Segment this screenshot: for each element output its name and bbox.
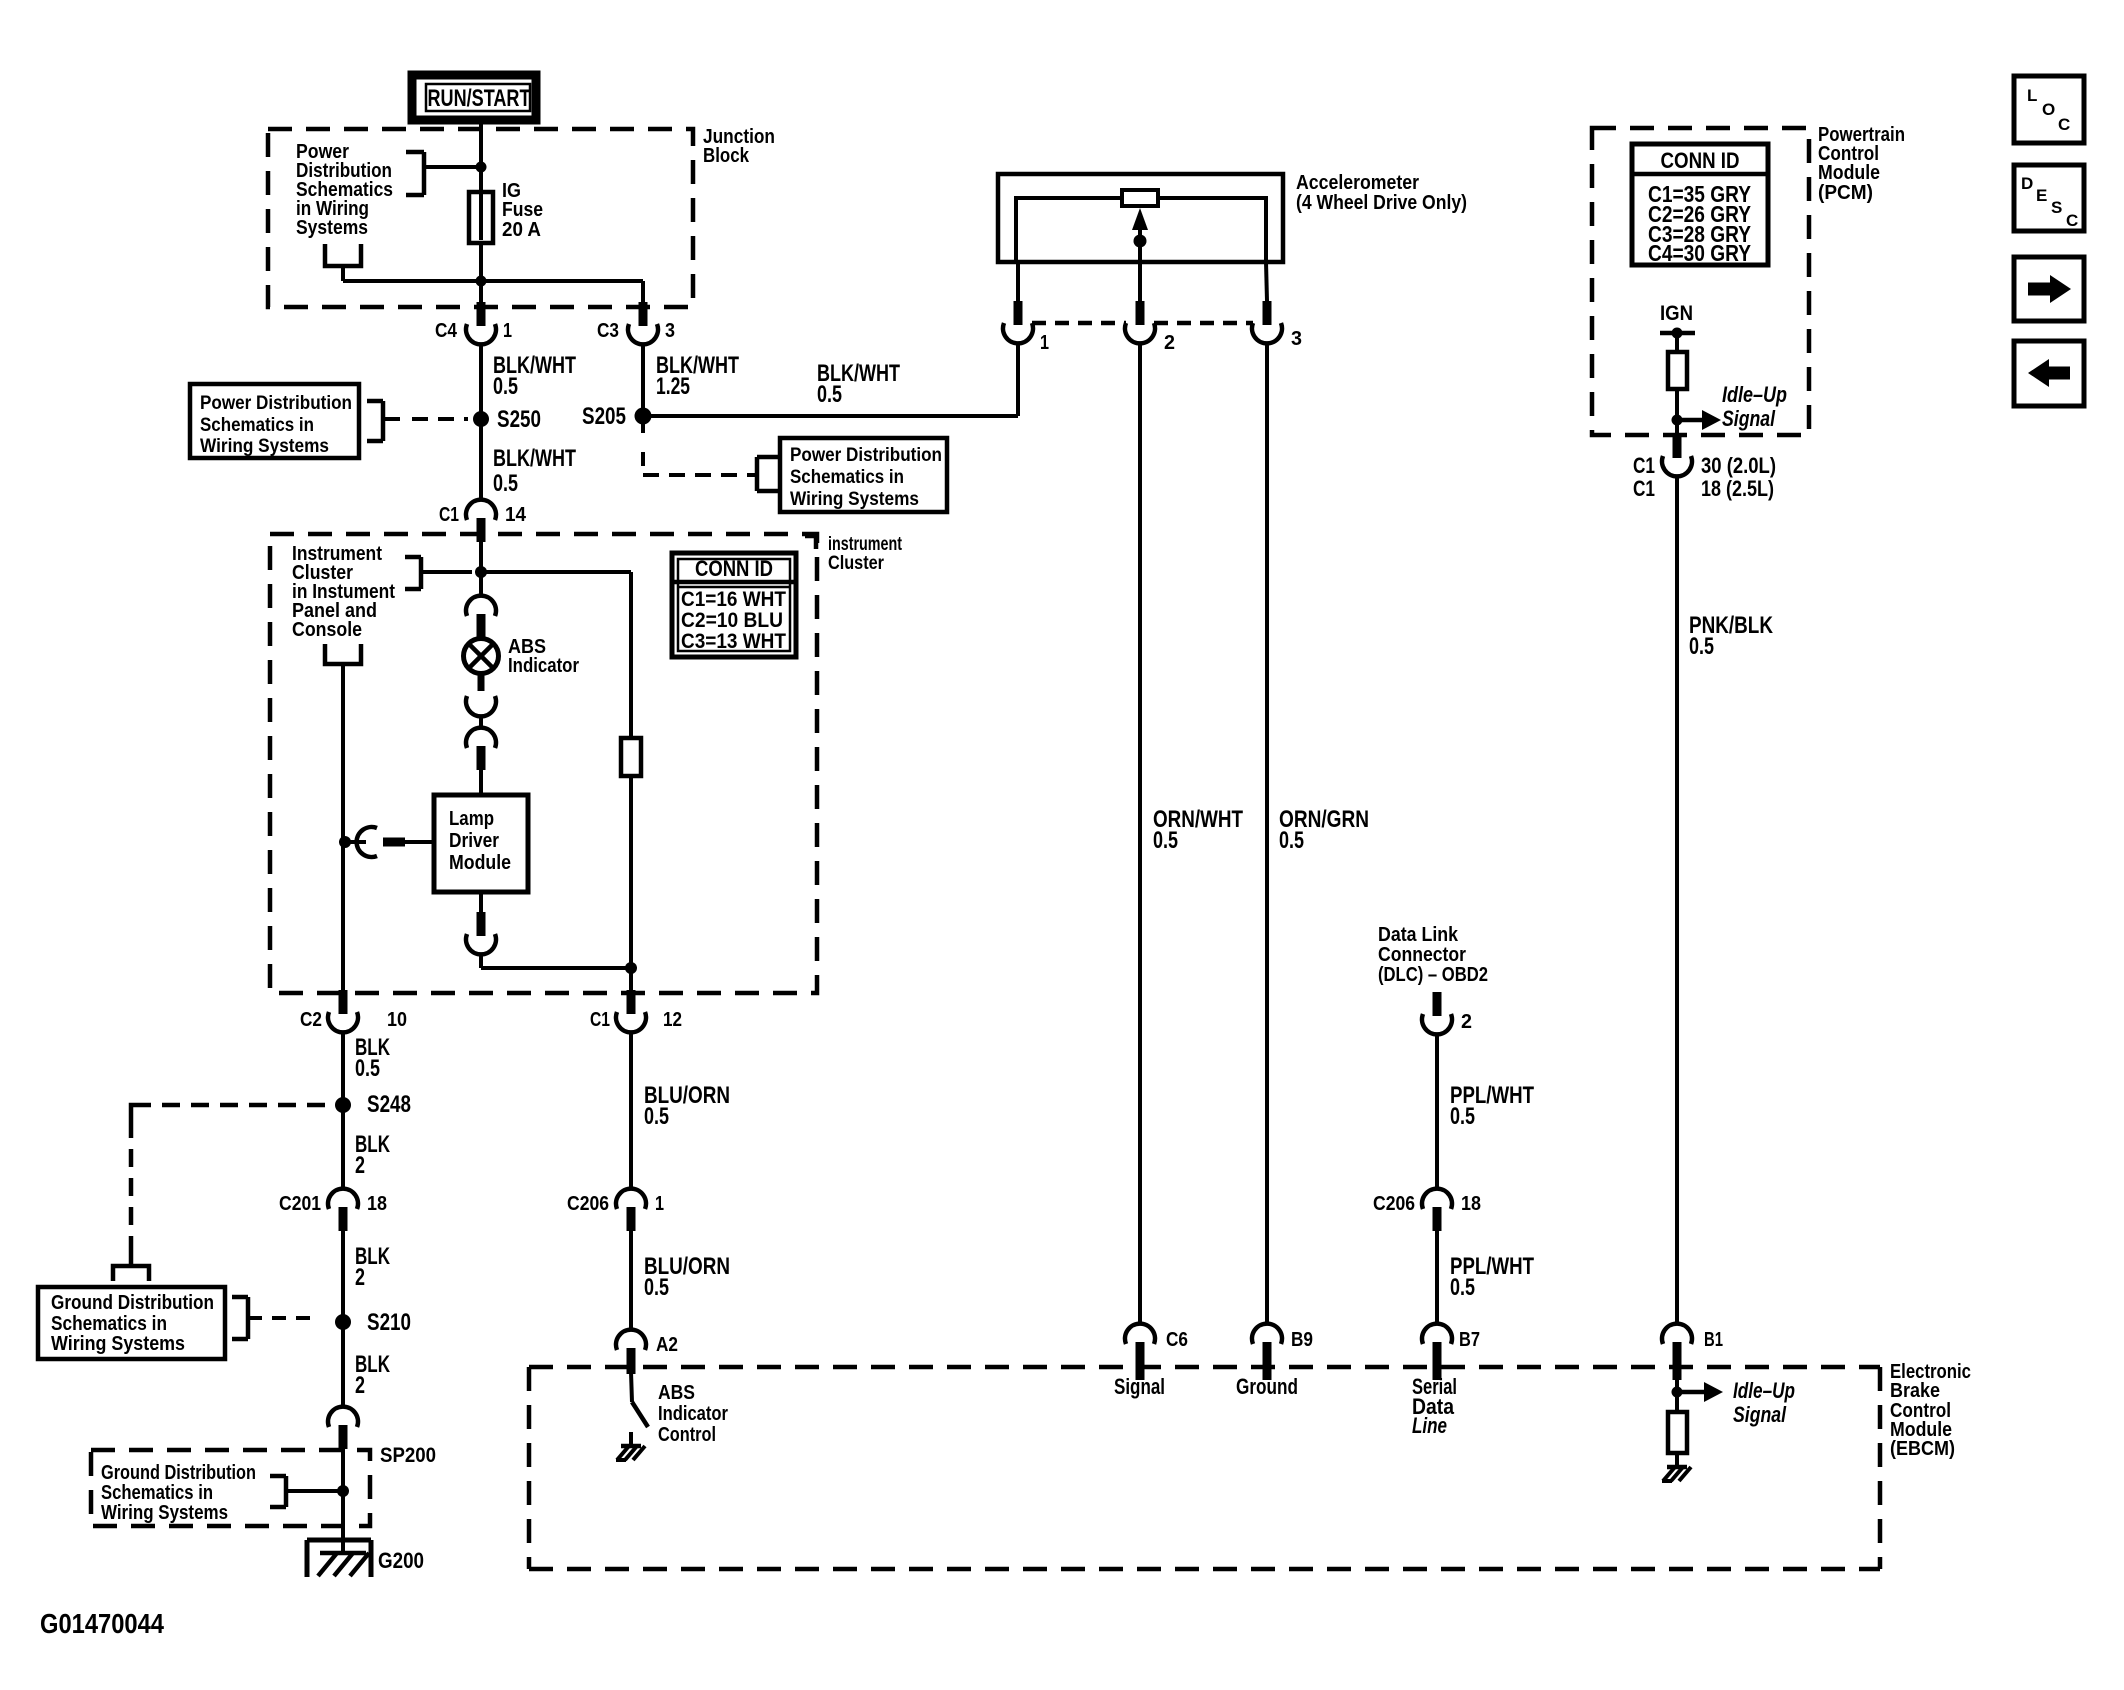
- splice S205: [582, 403, 652, 430]
- label ABS Indicator Control: [658, 1382, 728, 1446]
- wire DLC to C206: [1435, 1034, 1439, 1189]
- wire resistor to pin: [1675, 389, 1679, 437]
- label Serial Data Line: [1412, 1374, 1457, 1438]
- svg-text:CONN ID: CONN ID: [695, 556, 773, 581]
- svg-text:S: S: [2051, 198, 2062, 217]
- svg-text:IGN: IGN: [1660, 302, 1693, 325]
- svg-text:Schematics in: Schematics in: [51, 1313, 167, 1335]
- continuation symbol (junction block): [325, 244, 361, 266]
- svg-text:3: 3: [1291, 328, 1302, 350]
- svg-text:Ground: Ground: [1236, 1374, 1298, 1399]
- label ORN/GRN 0.5: [1279, 806, 1369, 854]
- svg-text:12: 12: [663, 1009, 682, 1031]
- svg-text:C1: C1: [439, 504, 459, 526]
- svg-text:Idle–Up: Idle–Up: [1733, 1378, 1795, 1403]
- bracket from note to wire: [406, 152, 481, 195]
- connector B1: [1662, 1324, 1723, 1380]
- svg-text:G200: G200: [378, 1548, 424, 1573]
- wire C201 to S210: [341, 1231, 345, 1407]
- svg-text:O: O: [2042, 100, 2055, 119]
- svg-text:Wiring Systems: Wiring Systems: [101, 1502, 228, 1524]
- label BLK 2 (above C201): [355, 1131, 390, 1179]
- svg-text:CONN ID: CONN ID: [1661, 148, 1740, 173]
- bracket + dashed link to S250: [367, 401, 468, 441]
- svg-text:(EBCM): (EBCM): [1890, 1438, 1955, 1460]
- bracket to wire (SP200): [270, 1476, 343, 1507]
- wire C2 to S248: [341, 1032, 345, 1189]
- resistor (PCM pull-up): [1668, 352, 1687, 389]
- label BLK/WHT 0.5 (C4): [493, 352, 576, 400]
- svg-text:18: 18: [367, 1193, 387, 1215]
- note box: Power Distribution Schematics in Wiring Systems (left): [190, 384, 359, 458]
- svg-text:C206: C206: [567, 1193, 609, 1215]
- junction dot idle-up: [1672, 415, 1683, 426]
- module: Lamp Driver Module: [434, 795, 528, 892]
- svg-text:Ground Distribution: Ground Distribution: [101, 1462, 256, 1484]
- connector pair above ABS indicator: [466, 596, 496, 616]
- label BLU/ORN 0.5 (lower): [644, 1253, 730, 1301]
- label BLU/ORN 0.5 (upper): [644, 1082, 730, 1130]
- svg-text:Data Link: Data Link: [1378, 924, 1459, 946]
- connector C2 pin 10: [300, 990, 407, 1032]
- svg-text:Module: Module: [449, 852, 511, 874]
- CONN ID table (instrument cluster): [672, 553, 796, 657]
- svg-text:Ground Distribution: Ground Distribution: [51, 1292, 214, 1314]
- wire lamp driver module to C1 pin 12: [479, 892, 483, 912]
- label Powertrain Control Module (PCM): [1818, 124, 1905, 204]
- electronic brake control module (dashed box): [529, 1367, 1880, 1569]
- wire C206 to A2: [629, 1231, 633, 1330]
- label Electronic Brake Control Module (EBCM): [1890, 1361, 1971, 1460]
- label Junction Block: [703, 126, 775, 167]
- svg-text:Block: Block: [703, 145, 750, 167]
- wire A2 into EBCM: [631, 1372, 632, 1402]
- svg-text:Wiring Systems: Wiring Systems: [790, 489, 919, 510]
- svg-text:Signal: Signal: [1114, 1374, 1165, 1399]
- svg-text:18 (2.5L): 18 (2.5L): [1701, 476, 1774, 501]
- svg-text:A2: A2: [656, 1334, 678, 1356]
- svg-text:Driver: Driver: [449, 830, 499, 852]
- svg-text:0.5: 0.5: [817, 381, 842, 408]
- splice S210: [335, 1309, 411, 1336]
- ground (ABS indicator control): [616, 1432, 645, 1460]
- svg-text:C4=30 GRY: C4=30 GRY: [1648, 240, 1751, 266]
- svg-text:Wiring Systems: Wiring Systems: [51, 1333, 185, 1355]
- label BLK 2 (below C201): [355, 1243, 390, 1291]
- svg-text:1.25: 1.25: [656, 373, 690, 400]
- splice S248: [335, 1091, 411, 1118]
- svg-text:B1: B1: [1704, 1329, 1723, 1351]
- svg-text:C1: C1: [1633, 476, 1655, 501]
- svg-text:S250: S250: [497, 406, 541, 433]
- connector C1 pin 30/18 (PCM): [1633, 434, 1776, 501]
- wire B1 to resistor: [1675, 1366, 1679, 1412]
- arrow idle-up signal (PCM): [1677, 410, 1721, 430]
- label PNK/BLK 0.5: [1689, 612, 1774, 660]
- svg-text:Power Distribution: Power Distribution: [790, 445, 942, 466]
- svg-text:2: 2: [355, 1372, 365, 1399]
- svg-text:0.5: 0.5: [493, 373, 518, 400]
- svg-text:RUN/START: RUN/START: [428, 85, 531, 112]
- svg-text:Wiring Systems: Wiring Systems: [200, 436, 329, 457]
- svg-text:C3=13 WHT: C3=13 WHT: [681, 629, 786, 653]
- svg-text:D: D: [2021, 174, 2033, 193]
- label BLK 0.5: [355, 1034, 390, 1082]
- svg-text:0.5: 0.5: [644, 1274, 669, 1301]
- svg-text:G01470044: G01470044: [40, 1608, 164, 1639]
- svg-text:Connector: Connector: [1378, 944, 1466, 966]
- splice S250: [473, 406, 541, 433]
- label PPL/WHT 0.5 (upper): [1450, 1082, 1534, 1130]
- dashed link S248 to continuation: [131, 1105, 325, 1266]
- svg-text:Power Distribution: Power Distribution: [200, 393, 352, 414]
- svg-text:B7: B7: [1459, 1329, 1480, 1351]
- svg-text:Fuse: Fuse: [502, 199, 543, 221]
- legend box DESC: [2014, 165, 2084, 231]
- connector C3 pin 3: [597, 302, 675, 344]
- continuation symbol (S248 link): [113, 1266, 149, 1281]
- svg-text:2: 2: [355, 1264, 365, 1291]
- junction dot below fuse: [476, 276, 487, 287]
- junction dot (EBCM idle-up): [1672, 1387, 1683, 1398]
- svg-text:0.5: 0.5: [1153, 827, 1178, 854]
- svg-text:1: 1: [655, 1193, 664, 1215]
- svg-text:0.5: 0.5: [644, 1103, 669, 1130]
- bracket (S205 note): [748, 457, 779, 491]
- svg-text:Accelerometer: Accelerometer: [1296, 172, 1419, 194]
- connector B9: [1252, 1324, 1313, 1380]
- svg-text:Line: Line: [1412, 1413, 1447, 1438]
- resistor (instrument cluster): [621, 738, 641, 776]
- svg-text:Lamp: Lamp: [449, 808, 494, 830]
- accelerometer body: [998, 174, 1283, 262]
- connector C6: [1125, 1324, 1188, 1380]
- wire SP200 to G200: [341, 1448, 345, 1552]
- potentiometer track: [1016, 190, 1266, 262]
- bracket + dashed link to S210: [232, 1297, 320, 1339]
- svg-text:C2: C2: [300, 1009, 322, 1031]
- label ABS Indicator: [508, 636, 579, 677]
- arrow idle-up signal (EBCM): [1677, 1382, 1723, 1402]
- svg-text:14: 14: [505, 504, 527, 526]
- svg-text:0.5: 0.5: [355, 1055, 380, 1082]
- svg-text:C201: C201: [279, 1193, 321, 1215]
- svg-text:B9: B9: [1291, 1329, 1313, 1351]
- wire IGN to resistor: [1675, 333, 1679, 352]
- switch node RUN/START: [412, 75, 536, 120]
- connector A2: [616, 1330, 678, 1374]
- legend box arrow left: [2014, 341, 2084, 406]
- svg-text:30 (2.0L): 30 (2.0L): [1701, 453, 1776, 478]
- wire resistor to bottom: [629, 776, 633, 995]
- label Instrument Cluster in Instument Panel and Console: [292, 543, 395, 641]
- lamp ABS Indicator: [464, 628, 499, 691]
- powertrain control module (dashed box): [1592, 128, 1809, 435]
- svg-text:1: 1: [503, 320, 512, 342]
- svg-text:ABS: ABS: [658, 1382, 695, 1404]
- svg-text:20 A: 20 A: [502, 219, 541, 241]
- svg-text:(DLC) – OBD2: (DLC) – OBD2: [1378, 964, 1488, 986]
- svg-text:Schematics in: Schematics in: [101, 1482, 213, 1504]
- svg-text:Module: Module: [1818, 162, 1880, 184]
- svg-text:0.5: 0.5: [1279, 827, 1304, 854]
- junction block (dashed box): [268, 129, 693, 307]
- svg-text:Indicator: Indicator: [508, 655, 579, 677]
- ground (EBCM resistor): [1662, 1453, 1691, 1481]
- note: Power Distribution Schematics in Wiring Systems (junction block): [296, 141, 393, 239]
- svg-text:L: L: [2027, 86, 2037, 105]
- label BLK/WHT 0.5 (below S250): [493, 445, 576, 497]
- bracket cluster label to wire: [405, 557, 472, 589]
- svg-text:Signal: Signal: [1733, 1402, 1787, 1427]
- svg-text:Brake: Brake: [1890, 1380, 1940, 1402]
- svg-text:C1: C1: [1633, 453, 1655, 478]
- label PPL/WHT 0.5 (lower): [1450, 1253, 1534, 1301]
- continuation symbol (cluster ground): [325, 644, 361, 664]
- connector C4 pin 1: [435, 302, 512, 344]
- junction dot SP200: [337, 1485, 349, 1497]
- label BLK/WHT 0.5 (S205 wire): [817, 360, 900, 408]
- legend box LOC: [2014, 76, 2084, 143]
- svg-text:Idle–Up: Idle–Up: [1722, 382, 1787, 407]
- accelerometer pin 2: [1125, 262, 1175, 354]
- svg-text:Signal: Signal: [1722, 406, 1776, 431]
- svg-text:18: 18: [1461, 1193, 1481, 1215]
- connector SP200: [328, 1407, 436, 1467]
- label BLK 2 (below S210): [355, 1351, 390, 1399]
- svg-text:S248: S248: [367, 1091, 411, 1118]
- label BLK/WHT 1.25 (C3): [656, 352, 739, 400]
- accelerometer pin 3: [1252, 262, 1302, 350]
- label Data Link Connector (DLC) - OBD2: [1378, 924, 1488, 986]
- svg-text:10: 10: [387, 1009, 407, 1031]
- wire C206 to B7: [1435, 1231, 1439, 1324]
- legend box arrow right: [2014, 257, 2084, 321]
- svg-text:2: 2: [1164, 332, 1175, 354]
- node: cluster feed split: [475, 540, 631, 738]
- label instrument Cluster: [828, 534, 902, 574]
- wire accelerometer pin 3 to B9: [1265, 344, 1269, 1324]
- svg-text:Cluster: Cluster: [828, 553, 885, 574]
- label Accelerometer (4 Wheel Drive Only): [1296, 172, 1467, 214]
- connector DLC pin 2: [1422, 992, 1472, 1034]
- connector C1 pin 14 (cluster): [439, 500, 527, 542]
- svg-text:C6: C6: [1166, 1329, 1188, 1351]
- dashed box: ground distribution (SP200): [91, 1450, 370, 1526]
- svg-text:C: C: [2058, 115, 2070, 134]
- svg-text:2: 2: [355, 1152, 365, 1179]
- wire PCM to B1: [1675, 476, 1679, 1324]
- svg-text:3: 3: [665, 320, 675, 342]
- svg-text:C4: C4: [435, 320, 458, 342]
- connector C201 pin 18: [279, 1189, 387, 1231]
- wire C1/12 to C206: [629, 1032, 633, 1189]
- junction dot at fuse feed: [476, 162, 487, 173]
- svg-text:C: C: [2066, 211, 2078, 230]
- connector B7: [1422, 1324, 1480, 1380]
- svg-text:0.5: 0.5: [1689, 633, 1714, 660]
- junction dot right branch: [625, 962, 637, 974]
- label Idle-Up Signal (PCM): [1722, 382, 1787, 431]
- svg-text:0.5: 0.5: [1450, 1274, 1475, 1301]
- connector C1 pin 12: [590, 990, 682, 1032]
- wire to lamp driver module: [479, 716, 483, 728]
- accelerometer pin 1: [1003, 262, 1049, 354]
- svg-text:E: E: [2036, 186, 2047, 205]
- svg-text:C1: C1: [590, 1009, 610, 1031]
- svg-text:Systems: Systems: [296, 217, 368, 239]
- svg-text:instrument: instrument: [828, 534, 902, 555]
- svg-text:Schematics in: Schematics in: [200, 415, 314, 436]
- fuse IG 20 A: [469, 192, 493, 243]
- switch: ABS indicator control: [632, 1402, 648, 1427]
- svg-text:(PCM): (PCM): [1818, 182, 1873, 204]
- connector pair below ABS indicator: [466, 696, 496, 716]
- label Idle-Up Signal (EBCM): [1733, 1378, 1795, 1427]
- wire C3 to S205: [641, 344, 645, 433]
- resistor (EBCM): [1668, 1412, 1687, 1453]
- CONN ID table (PCM): [1632, 144, 1768, 266]
- svg-text:C206: C206: [1373, 1193, 1415, 1215]
- wire to right branch: [481, 954, 631, 968]
- note box: Power Distribution Schematics in Wiring Systems (S205): [780, 438, 947, 512]
- svg-text:Schematics in: Schematics in: [790, 467, 904, 488]
- svg-text:C3: C3: [597, 320, 619, 342]
- junction dot on ground wire: [339, 836, 351, 848]
- svg-text:0.5: 0.5: [1450, 1103, 1475, 1130]
- corner mark before instrument label: [805, 536, 816, 549]
- wire RUN/START to fuse: [479, 120, 483, 195]
- wire accelerometer pin 2 to C6: [1138, 344, 1142, 1324]
- svg-text:1: 1: [1040, 332, 1049, 354]
- svg-text:Control: Control: [658, 1424, 716, 1446]
- svg-text:BLK/WHT: BLK/WHT: [493, 445, 576, 472]
- connector C206 pin 1: [567, 1189, 664, 1231]
- wire cluster ground: [341, 664, 345, 995]
- dashed link S205 to note box: [643, 452, 748, 475]
- instrument cluster (dashed box): [270, 534, 817, 993]
- connector C206 pin 18: [1373, 1189, 1481, 1231]
- note: Ground Distribution Schematics in Wiring Systems (SP200): [101, 1462, 256, 1524]
- connector into lamp driver module (left): [345, 827, 434, 857]
- note box: Ground Distribution Schematics in Wiring Systems: [38, 1287, 225, 1359]
- wire C4 to S250: [479, 344, 483, 500]
- svg-text:SP200: SP200: [380, 1444, 436, 1467]
- dashed connector line (accelerometer): [1032, 321, 1253, 326]
- svg-text:Console: Console: [292, 619, 362, 641]
- connector below lamp driver module: [466, 934, 496, 954]
- label IG Fuse 20 A: [502, 180, 543, 241]
- label ORN/WHT 0.5: [1153, 806, 1243, 854]
- potentiometer wiper: [1132, 208, 1148, 262]
- wire S205 to accelerometer pin 1: [643, 344, 1018, 416]
- connector above lamp driver module: [466, 728, 496, 748]
- net IGN: [1660, 302, 1695, 339]
- ground G200: [307, 1540, 424, 1577]
- svg-text:0.5: 0.5: [493, 470, 518, 497]
- svg-text:S205: S205: [582, 403, 626, 430]
- wire fuse to C4 and branch: [343, 243, 643, 307]
- svg-text:Indicator: Indicator: [658, 1403, 728, 1425]
- svg-text:(4 Wheel Drive Only): (4 Wheel Drive Only): [1296, 192, 1467, 214]
- svg-text:2: 2: [1461, 1011, 1472, 1033]
- svg-text:S210: S210: [367, 1309, 411, 1336]
